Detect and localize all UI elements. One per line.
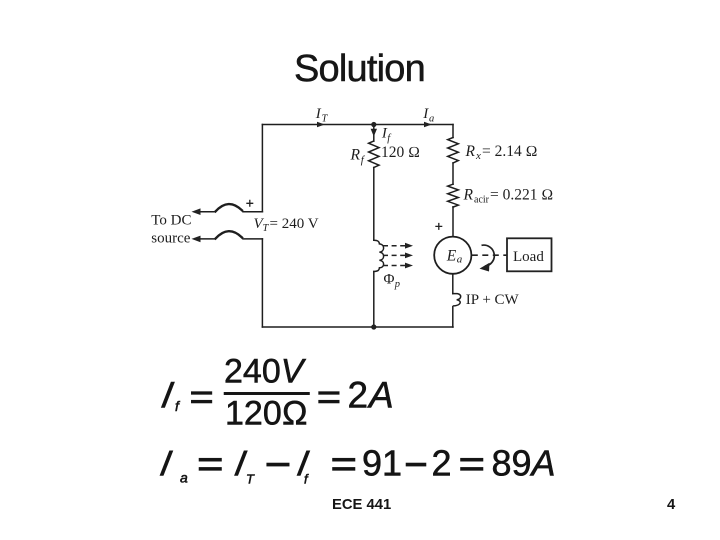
svg-text:f: f: [304, 472, 309, 487]
svg-text:T: T: [246, 472, 255, 487]
svg-text:f: f: [175, 398, 181, 414]
wire: left vertical lower segment: [261, 239, 263, 327]
wire: motor to interpole winding: [452, 274, 454, 294]
connector arc lower: [216, 231, 243, 238]
inductor: IP + CW winding: [453, 294, 461, 327]
wire: left vertical upper segment: [261, 125, 263, 212]
resistor Rx zigzag: [448, 138, 459, 163]
svg-text:a: a: [429, 114, 434, 125]
plus terminal above motor: [435, 223, 442, 230]
svg-text:a: a: [457, 254, 463, 266]
svg-text:To DC: To DC: [151, 213, 191, 229]
arrowhead: lower lead toward DC source: [192, 236, 201, 243]
current arrow Ia on top bus: [424, 122, 432, 128]
equation 2: Ia = IT - If = 91 - 2 = 89A: [157, 443, 556, 487]
svg-text:= 240 V: = 240 V: [270, 216, 319, 232]
footer page number: [667, 497, 675, 513]
node: bottom junction of field branch: [371, 324, 376, 329]
svg-text:120 Ω: 120 Ω: [381, 144, 420, 161]
flux arrow 3 (dashed): [383, 265, 407, 267]
slide title "Solution": [294, 48, 425, 91]
wire: upper lead to DC source: [196, 211, 215, 213]
arrowhead: upper lead toward DC source: [192, 208, 201, 215]
svg-text:f: f: [361, 154, 366, 166]
svg-text:2: 2: [348, 375, 369, 416]
svg-text:IP + CW: IP + CW: [466, 292, 520, 308]
equation 1: If = 240V/120ohm = 2A: [158, 353, 393, 433]
svg-text:Load: Load: [513, 249, 544, 265]
svg-text:T: T: [263, 223, 270, 234]
svg-text:x: x: [475, 150, 481, 162]
svg-text:a: a: [180, 470, 188, 486]
eq1 fraction bar: [224, 392, 310, 394]
flux arrow 1 (dashed): [383, 245, 407, 247]
wire: lower terminal stub: [243, 238, 262, 240]
svg-text:A: A: [530, 443, 556, 484]
eq2 minus: [267, 463, 290, 466]
eq1 equals: [191, 392, 212, 395]
eq1 equals 2: [319, 392, 340, 395]
svg-text:I: I: [157, 443, 175, 484]
rotation arrow around shaft: [482, 245, 495, 266]
drive shaft dashed line to load: [472, 254, 507, 256]
figure text labels (serif): [151, 106, 553, 308]
svg-text:120Ω: 120Ω: [225, 395, 308, 433]
eq2 equals: [199, 458, 222, 461]
svg-text:A: A: [367, 375, 394, 416]
inductor: shunt field coil: [374, 240, 384, 271]
resistor Racir zigzag: [448, 184, 459, 207]
flux arrow 2 (dashed): [383, 254, 407, 256]
wire: field branch middle: [373, 168, 375, 241]
plus terminal at upper source lead: [246, 200, 253, 207]
svg-text:I: I: [158, 374, 176, 416]
node: top junction of field branch: [371, 122, 376, 127]
svg-text:= 2.14 Ω: = 2.14 Ω: [482, 143, 538, 160]
load box: [507, 238, 552, 271]
svg-text:T: T: [322, 114, 329, 125]
wire: top bus from left corner to right corner: [262, 124, 453, 126]
svg-text:acir: acir: [474, 195, 490, 206]
wire: field branch lower lead: [373, 272, 375, 328]
svg-text:R: R: [465, 143, 476, 160]
current arrow If down the field branch: [371, 129, 377, 137]
svg-text:91: 91: [362, 443, 402, 484]
svg-text:2: 2: [432, 443, 452, 484]
connector arc upper: [216, 204, 243, 211]
resistor Rf zigzag: [369, 141, 379, 167]
wire: field branch upper lead: [373, 125, 375, 142]
eq2 equals 89A: [461, 458, 484, 461]
wire: between Rx and Racir: [452, 163, 454, 184]
svg-text:240: 240: [224, 353, 281, 391]
svg-text:f: f: [387, 133, 392, 144]
svg-text:source: source: [151, 231, 190, 247]
eq2 minus 2: [406, 463, 426, 466]
svg-text:I: I: [294, 443, 312, 484]
wire: bottom bus: [262, 326, 453, 328]
eq2 equals 91: [333, 458, 356, 461]
svg-text:Φ: Φ: [384, 271, 395, 287]
wire: lower lead to DC source: [196, 238, 215, 240]
svg-text:R: R: [463, 186, 474, 203]
svg-text:V: V: [281, 353, 307, 391]
wire: Racir to motor: [452, 207, 454, 237]
svg-text:R: R: [350, 147, 361, 164]
motor armature circle Ea: [434, 237, 471, 274]
svg-text:89: 89: [492, 443, 532, 484]
svg-text:= 0.221 Ω: = 0.221 Ω: [490, 186, 553, 203]
svg-text:p: p: [394, 279, 400, 290]
footer course label: [332, 497, 391, 513]
current arrow IT on top bus: [317, 122, 325, 128]
wire: armature branch top lead: [452, 125, 454, 138]
svg-text:E: E: [446, 248, 457, 265]
wire: upper terminal stub: [243, 211, 262, 213]
